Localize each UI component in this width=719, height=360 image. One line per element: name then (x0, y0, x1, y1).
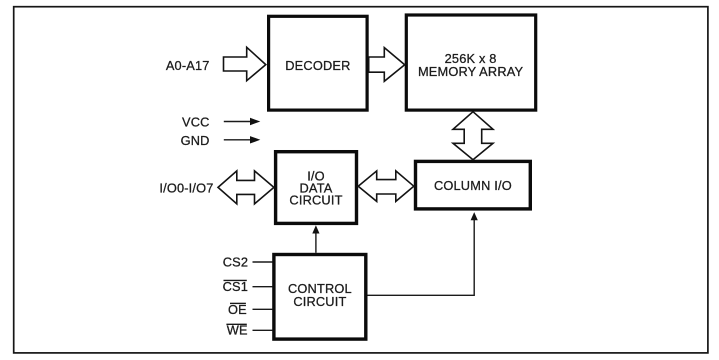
bus double arrow MEMORY ARRAY to COLUMN I/O (453, 112, 493, 160)
svg-text:A0-A17: A0-A17 (166, 58, 210, 73)
svg-text:I/O0-I/O7: I/O0-I/O7 (159, 180, 213, 195)
bus double arrow I/O0-I/O7 to I/O DATA CIRCUIT (218, 171, 274, 204)
wire CS2 (253, 261, 273, 263)
block DECODER (269, 16, 368, 110)
label WE (active low) (226, 323, 247, 338)
block I/O DATA CIRCUIT (276, 152, 357, 224)
label CS1 (active low) (223, 279, 248, 294)
bus double arrow I/O DATA CIRCUIT to COLUMN I/O (358, 171, 414, 202)
label OE (active low) (228, 302, 247, 317)
wire VCC arrow (224, 118, 260, 125)
wire WE (253, 329, 273, 331)
block COLUMN I/O (416, 161, 531, 209)
wire OE (253, 308, 273, 310)
svg-text:DECODER: DECODER (285, 58, 350, 73)
svg-text:MEMORY ARRAY: MEMORY ARRAY (418, 64, 524, 79)
svg-text:CS2: CS2 (223, 255, 248, 270)
svg-text:VCC: VCC (182, 114, 210, 129)
svg-text:CS1: CS1 (223, 279, 248, 294)
wire CONTROL CIRCUIT to I/O DATA CIRCUIT arrow (312, 225, 319, 253)
svg-text:GND: GND (181, 133, 210, 148)
svg-text:CIRCUIT: CIRCUIT (293, 294, 346, 309)
bus arrow A0-A17 into DECODER (224, 47, 266, 80)
svg-text:CIRCUIT: CIRCUIT (289, 192, 342, 207)
wire CONTROL CIRCUIT to COLUMN I/O arrow (368, 212, 478, 295)
wire CS1 (253, 286, 273, 288)
wire GND arrow (224, 136, 260, 143)
block 256K x 8 MEMORY ARRAY (406, 15, 535, 110)
svg-text:COLUMN I/O: COLUMN I/O (434, 178, 512, 193)
block CONTROL CIRCUIT (274, 255, 366, 340)
bus arrow DECODER to MEMORY ARRAY (369, 48, 405, 82)
